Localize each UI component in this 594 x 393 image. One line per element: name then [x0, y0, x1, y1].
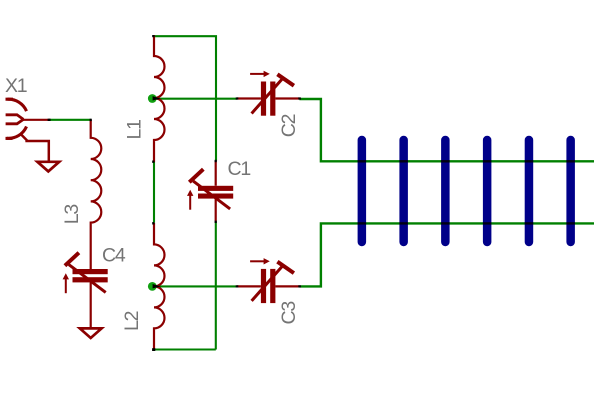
connector X1: [6, 99, 50, 160]
ground under X1: [37, 162, 59, 172]
node C1 pin 1: [215, 160, 217, 162]
svg-text:C1: C1: [228, 158, 251, 180]
node L2 pin 1: [152, 222, 154, 224]
wire L2 bottom net: [154, 348, 216, 350]
ladder line bar 6: [566, 136, 575, 246]
node L1 tap junction: [148, 94, 161, 103]
svg-text:L1: L1: [124, 120, 146, 140]
node L1 pin 2: [152, 161, 154, 163]
node C2 pin 2: [298, 97, 301, 99]
node L3 pin 1: [90, 119, 92, 121]
ladder line bar 5: [525, 136, 534, 246]
svg-text:X1: X1: [5, 75, 27, 97]
wire-over-bar dark crossings: [358, 160, 575, 224]
ground under C4: [80, 328, 102, 338]
ladder line bar 2: [399, 136, 408, 246]
capacitor C4: [63, 253, 108, 328]
wire C3 to ladder bottom: [299, 223, 594, 286]
svg-text:L3: L3: [61, 205, 83, 225]
ladder line bar 1: [358, 136, 367, 246]
capacitor C2: [237, 71, 300, 116]
wire from X1 to L3 top corner: [49, 119, 91, 121]
svg-text:C2: C2: [278, 114, 300, 137]
ladder line bar 4: [483, 136, 492, 246]
inductor L1: [154, 35, 165, 162]
node C2 pin 1: [236, 97, 239, 99]
svg-text:C4: C4: [102, 245, 126, 267]
capacitor C1: [187, 161, 233, 222]
wire C2 to ladder top: [299, 99, 594, 161]
node C1 pin 2: [215, 221, 217, 223]
ladder line bar 3: [441, 136, 450, 246]
svg-text:L2: L2: [121, 311, 143, 331]
node C3 pin 1: [236, 285, 239, 287]
node X1 pin to wire: [48, 119, 51, 121]
wire L1 tap to C2: [152, 98, 237, 100]
node C3 pin 2: [298, 285, 301, 287]
inductor L3: [91, 120, 102, 269]
wire top net L1 top to vertical: [154, 36, 216, 161]
node L2 tap junction: [148, 282, 161, 291]
node L1 pin 1: [152, 35, 154, 37]
node L2 pin 2: [152, 348, 155, 351]
svg-text:C3: C3: [278, 302, 300, 325]
wire C1 bottom vertical: [215, 221, 217, 349]
inductor L2: [154, 223, 165, 350]
capacitor C3: [237, 258, 300, 303]
wire between L1 and L2: [153, 162, 155, 223]
wire L2 tap to C3: [152, 285, 237, 287]
